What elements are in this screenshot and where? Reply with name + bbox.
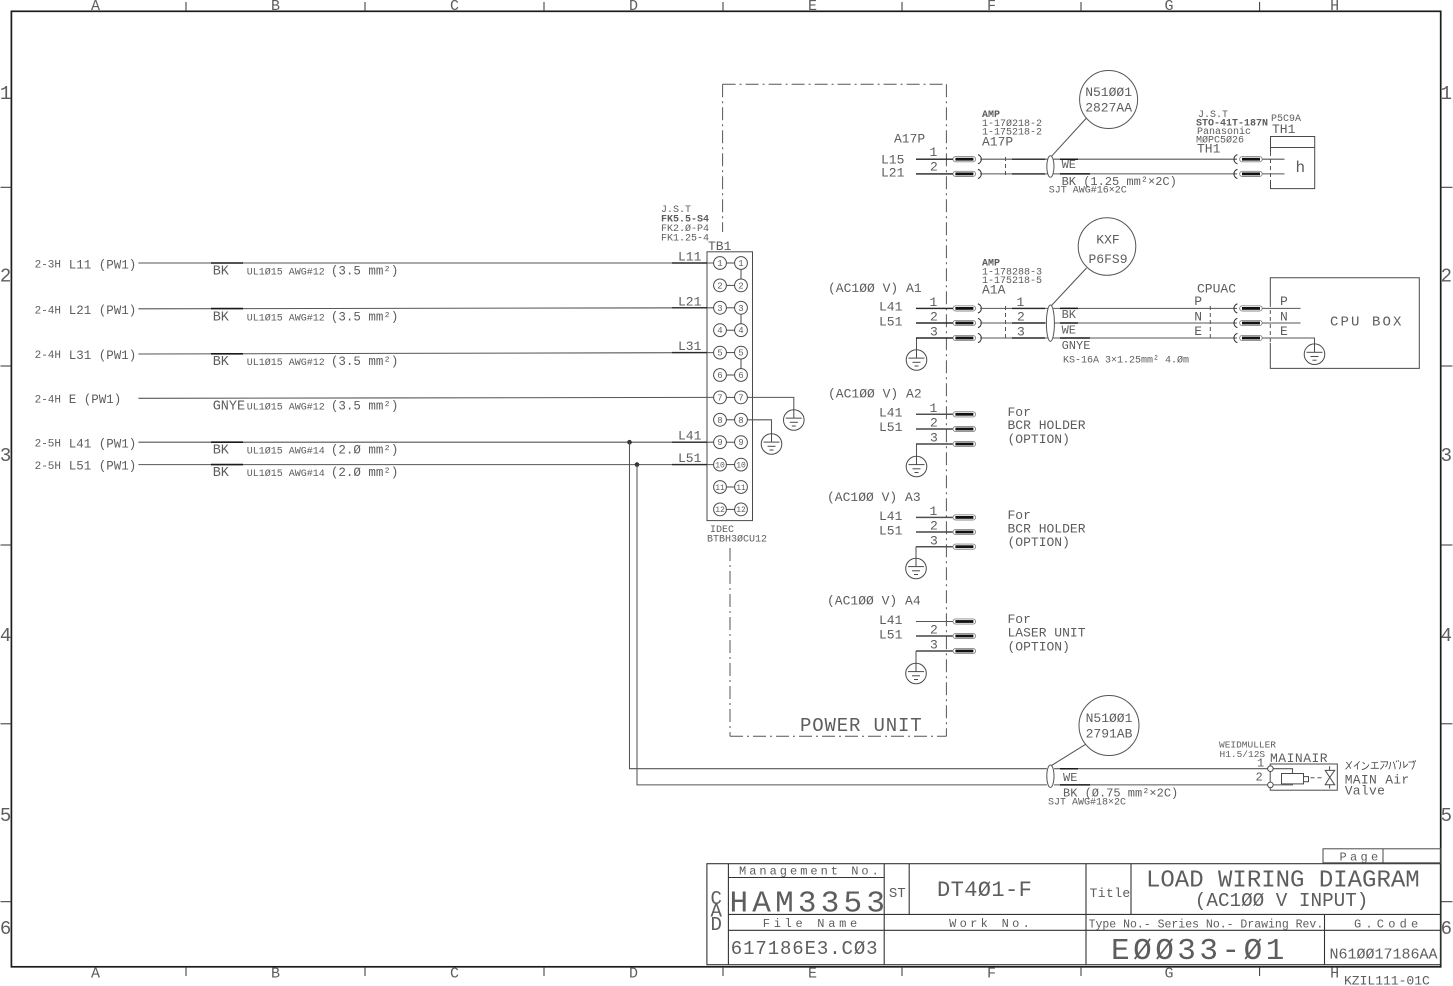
node L41 input label [35, 437, 137, 451]
svg-text:B: B [271, 966, 280, 983]
svg-text:File Name: File Name [763, 917, 861, 931]
connector pins A2 [953, 412, 976, 417]
connector pin A17P-2 [953, 169, 981, 178]
svg-text:(AC1ØØ V) A1: (AC1ØØ V) A1 [828, 281, 922, 296]
svg-text:SJT AWG#16×2C: SJT AWG#16×2C [1049, 186, 1127, 197]
svg-text:1: 1 [930, 401, 938, 416]
ground G3 (A1 pin3) [916, 338, 918, 350]
connector pins A1A [953, 304, 981, 313]
svg-text:1: 1 [930, 145, 938, 160]
wire L21 to TB1 pin3 [138, 308, 713, 309]
node L31 input label [35, 349, 137, 363]
svg-text:E: E [808, 0, 817, 15]
svg-text:Type No.- Series No.- Drawing: Type No.- Series No.- Drawing Rev. [1089, 919, 1324, 932]
frame ruler ticks top [186, 2, 1260, 11]
wire into TH1 box pin2 [1262, 173, 1284, 175]
wire into TH1 box pin1 [1262, 158, 1284, 160]
label BK conductor A1 [1060, 307, 1078, 309]
svg-text:2: 2 [738, 281, 743, 291]
svg-text:BK: BK [213, 466, 230, 481]
cable marker oval main air cable [1047, 765, 1054, 787]
wire A3 pin2 [916, 531, 953, 533]
svg-text:3: 3 [738, 304, 743, 314]
svg-text:BK: BK [1062, 308, 1077, 322]
cable boundary dashes A17P [1005, 157, 1007, 176]
terminal block TB1 connector maker labels [661, 205, 709, 245]
svg-text:F: F [987, 0, 996, 15]
svg-text:ST: ST [889, 886, 906, 902]
svg-text:UL1Ø15 AWG#14 (2.Ø mm²): UL1Ø15 AWG#14 (2.Ø mm²) [247, 466, 399, 480]
svg-text:5: 5 [0, 805, 11, 827]
wire A4 pin2 [916, 635, 953, 637]
label WE conductor main air [1060, 768, 1078, 770]
wire A1-1 to CPUAC [980, 307, 1237, 309]
svg-text:L11 (PW1): L11 (PW1) [69, 258, 137, 272]
wire A17P-2 to TH1 cable [980, 173, 1237, 175]
svg-text:L21: L21 [881, 166, 905, 181]
svg-text:617186E3.CØ3: 617186E3.CØ3 [731, 938, 879, 960]
svg-text:L41: L41 [879, 509, 903, 524]
svg-text:Title: Title [1090, 886, 1131, 901]
svg-text:3: 3 [930, 431, 938, 446]
wire L51 to TB1 pin10 [138, 464, 713, 466]
page box [1323, 849, 1441, 863]
svg-text:9: 9 [738, 438, 743, 448]
main air valve box [1270, 764, 1337, 790]
svg-text:BCR HOLDER: BCR HOLDER [1008, 418, 1086, 433]
svg-text:L51: L51 [879, 627, 903, 642]
terminal block TB1 part number [707, 525, 767, 546]
svg-text:12: 12 [715, 506, 725, 515]
svg-text:N61ØØ17186AA: N61ØØ17186AA [1330, 947, 1438, 964]
svg-text:GNYE: GNYE [1062, 339, 1091, 353]
label L51 wire spec [213, 466, 399, 481]
svg-text:N: N [1194, 309, 1202, 324]
svg-text:2: 2 [930, 519, 938, 534]
label L11 wire spec [213, 265, 399, 280]
label L41 wire spec [213, 444, 399, 459]
svg-text:C: C [450, 0, 459, 15]
svg-text:A1A: A1A [982, 283, 1006, 298]
svg-text:E: E [1194, 324, 1202, 339]
svg-text:(OPTION): (OPTION) [1008, 432, 1070, 447]
svg-text:L41: L41 [879, 613, 903, 628]
svg-text:(OPTION): (OPTION) [1008, 639, 1070, 654]
svg-text:BK: BK [213, 310, 230, 325]
svg-text:6: 6 [1441, 918, 1452, 940]
svg-text:WE: WE [1062, 158, 1076, 172]
svg-text:P: P [1194, 294, 1202, 309]
svg-text:L31: L31 [678, 339, 702, 354]
svg-text:UL1Ø15 AWG#12 (3.5 mm²): UL1Ø15 AWG#12 (3.5 mm²) [247, 265, 399, 279]
svg-text:B: B [271, 0, 280, 15]
svg-text:2: 2 [930, 160, 938, 175]
svg-text:BTBH3ØCU12: BTBH3ØCU12 [707, 534, 767, 546]
label L21 wire spec [213, 310, 399, 325]
svg-text:2: 2 [930, 416, 938, 431]
wire pin2 to valve plug [1273, 784, 1292, 785]
svg-text:E: E [808, 966, 817, 983]
svg-text:L51 (PW1): L51 (PW1) [69, 460, 137, 474]
cable marker oval TH1 cable [1047, 156, 1054, 178]
ground G6 (A3 pin3) [915, 547, 917, 559]
svg-text:2-3H: 2-3H [35, 260, 61, 272]
label L31 wire spec [213, 355, 399, 370]
svg-text:6: 6 [0, 918, 11, 940]
cable boundary dashes CPUAC [1209, 306, 1211, 340]
wire A2 pin2 [916, 428, 953, 430]
svg-text:Work No.: Work No. [949, 917, 1033, 931]
svg-text:E: E [1280, 324, 1288, 339]
svg-text:A: A [91, 0, 100, 15]
svg-text:G: G [1164, 0, 1173, 15]
svg-text:L11: L11 [678, 250, 702, 265]
wire WE to main air pin1 [1054, 768, 1268, 770]
svg-text:P: P [1280, 294, 1288, 309]
wire A17P-1 to TH1 cable [980, 158, 1237, 160]
wire L31 to TB1 pin5 [138, 353, 713, 354]
junction dot L41 [627, 440, 632, 445]
svg-text:D: D [629, 0, 638, 15]
thermostat TH1 maker labels [1196, 110, 1268, 147]
terminal maker label WEIDMULLER [1219, 740, 1276, 761]
svg-text:7: 7 [738, 393, 743, 403]
svg-text:2: 2 [930, 310, 938, 325]
wire A1-3 to CPUAC [980, 337, 1237, 339]
svg-text:DT4Ø1-F: DT4Ø1-F [937, 878, 1032, 903]
svg-text:P6FS9: P6FS9 [1088, 252, 1127, 267]
svg-text:L51: L51 [678, 451, 702, 466]
wire CPUAC P into box [1262, 307, 1300, 309]
terminal block TB1 pin numbers [717, 259, 743, 448]
svg-text:4: 4 [738, 326, 743, 336]
label main air valve japanese [1346, 760, 1416, 769]
svg-text:11: 11 [715, 484, 725, 493]
svg-text:N51ØØ1: N51ØØ1 [1086, 711, 1133, 726]
svg-text:A: A [91, 966, 100, 983]
svg-text:9: 9 [717, 438, 722, 448]
svg-text:1: 1 [1257, 757, 1264, 771]
svg-text:2: 2 [930, 623, 938, 638]
wire A1 pin2 [916, 322, 953, 324]
terminal block TB1 jumpers rows 1-2,3-4,5-6 [740, 269, 742, 368]
wire A2 pin1 [916, 413, 953, 415]
svg-text:2: 2 [1017, 310, 1025, 325]
label For BCR HOLDER (OPTION) A2 [1008, 405, 1086, 447]
svg-text:3: 3 [0, 445, 11, 467]
balloon N51001 2827AA [1052, 71, 1138, 157]
wire L41 to TB1 pin9 [138, 441, 713, 443]
svg-text:6: 6 [717, 371, 722, 381]
solenoid valve symbol [1325, 766, 1335, 788]
svg-text:Page: Page [1340, 850, 1382, 864]
svg-text:N: N [1280, 309, 1288, 324]
wire L11 to TB1 pin1 [138, 262, 713, 264]
svg-text:(AC1ØØ V INPUT): (AC1ØØ V INPUT) [1195, 890, 1369, 912]
svg-text:WE: WE [1063, 771, 1077, 785]
connector sockets CPUAC [1234, 304, 1262, 313]
svg-text:A17P: A17P [894, 132, 925, 147]
wire A4 pin3 from ground [916, 650, 953, 652]
connector pins A3 [953, 515, 976, 520]
cable boundary dashes A1 [1005, 306, 1007, 340]
wire pin1 to valve plug [1273, 769, 1292, 774]
frame ruler ticks left [1, 187, 12, 901]
svg-text:BK: BK [213, 355, 230, 370]
connector pins A4 [953, 619, 976, 624]
label E wire spec [213, 399, 399, 414]
svg-text:7: 7 [717, 393, 722, 403]
svg-text:D: D [629, 966, 638, 983]
wire L41 drop to main air cable [630, 442, 1047, 769]
svg-text:2: 2 [1441, 266, 1452, 288]
frame column letters top [91, 0, 1339, 15]
svg-text:3: 3 [1017, 325, 1025, 340]
frame ruler ticks bottom [186, 967, 1260, 976]
wire A1 pin3 from ground [917, 337, 954, 339]
svg-text:KZIL111-01C: KZIL111-01C [1344, 974, 1430, 986]
connector A17P plug maker label [982, 110, 1042, 139]
svg-text:1: 1 [738, 259, 743, 269]
svg-text:H: H [1330, 0, 1339, 15]
terminal circle pin2 [1268, 782, 1274, 788]
wire A1 pin1 [916, 307, 953, 309]
svg-text:F: F [987, 966, 996, 983]
svg-text:BK: BK [213, 444, 230, 459]
terminal block TB1 body [707, 252, 753, 521]
svg-text:2: 2 [717, 281, 722, 291]
svg-text:G.Code: G.Code [1354, 918, 1422, 932]
svg-text:POWER UNIT: POWER UNIT [800, 715, 923, 737]
cable marker oval A1 cable [1046, 305, 1054, 341]
terminal block TB1 terminals [714, 257, 748, 516]
svg-text:8: 8 [738, 416, 743, 426]
svg-text:L41 (PW1): L41 (PW1) [69, 437, 137, 451]
svg-text:2791AB: 2791AB [1086, 727, 1133, 742]
svg-text:L51: L51 [879, 523, 903, 538]
ground G5 (A2 pin3) [916, 444, 918, 456]
svg-text:L51: L51 [879, 315, 903, 330]
wire E to TB1 pin7 [138, 396, 713, 399]
node L11 input label [35, 258, 137, 272]
wire A3 pin3 from ground [916, 546, 953, 548]
svg-text:Valve: Valve [1345, 784, 1386, 799]
label For BCR HOLDER (OPTION) A3 [1008, 508, 1086, 550]
svg-text:2-4H: 2-4H [35, 350, 61, 362]
svg-text:UL1Ø15 AWG#12 (3.5 mm²): UL1Ø15 AWG#12 (3.5 mm²) [247, 310, 399, 324]
label For LASER UNIT (OPTION) A4 [1008, 612, 1086, 654]
svg-text:(OPTION): (OPTION) [1008, 535, 1070, 550]
svg-text:BK: BK [213, 265, 230, 280]
wire TB1 pin8 to ground [747, 420, 771, 434]
frame column letters bottom [91, 966, 1339, 983]
svg-text:D: D [711, 914, 722, 936]
svg-text:EØØ33-Ø1: EØØ33-Ø1 [1111, 934, 1288, 969]
wire A4 pin1 [916, 621, 953, 623]
svg-text:11: 11 [736, 484, 746, 493]
svg-text:TH1: TH1 [1272, 122, 1296, 137]
wire CPUAC E to box ground [1262, 338, 1314, 344]
svg-text:5: 5 [738, 349, 743, 359]
frame row numbers right [1441, 83, 1452, 940]
svg-text:L41: L41 [678, 429, 702, 444]
svg-text:UL1Ø15 AWG#12 (3.5 mm²): UL1Ø15 AWG#12 (3.5 mm²) [247, 355, 399, 369]
ground G7 (A4 pin3) [915, 651, 917, 663]
frame ruler ticks right [1441, 187, 1453, 901]
svg-text:A17P: A17P [982, 135, 1013, 150]
wire L21 to A17P pin2 [916, 173, 953, 175]
wire A1-2 to CPUAC [980, 322, 1237, 324]
balloon N51001 2791AB [1052, 696, 1140, 766]
svg-text:L21 (PW1): L21 (PW1) [69, 304, 137, 318]
svg-text:1: 1 [930, 504, 938, 519]
svg-text:L41: L41 [879, 300, 903, 315]
wire BK to main air pin2 [1054, 784, 1268, 786]
svg-text:2827AA: 2827AA [1085, 101, 1132, 116]
ground G1 (TB1 pin7) [784, 410, 805, 431]
svg-text:L21: L21 [678, 294, 702, 309]
svg-text:3: 3 [1441, 445, 1452, 467]
svg-text:L31 (PW1): L31 (PW1) [69, 349, 137, 363]
wire L51 drop to main air cable [637, 465, 1047, 785]
svg-text:WE: WE [1062, 324, 1076, 338]
svg-text:E (PW1): E (PW1) [69, 393, 122, 407]
svg-text:UL1Ø15 AWG#14 (2.Ø mm²): UL1Ø15 AWG#14 (2.Ø mm²) [247, 444, 399, 458]
label CAD [711, 888, 723, 936]
svg-text:Management No.: Management No. [739, 865, 882, 879]
frame row numbers left [0, 83, 11, 940]
svg-text:2: 2 [1256, 771, 1263, 785]
title block outer [707, 864, 1441, 965]
svg-text:5: 5 [717, 349, 722, 359]
svg-text:3: 3 [930, 638, 938, 653]
connector A1A maker label [982, 259, 1042, 288]
svg-text:KS-16A 3×1.25mm² 4.Øm: KS-16A 3×1.25mm² 4.Øm [1063, 355, 1189, 367]
svg-text:C: C [450, 966, 459, 983]
svg-text:6: 6 [738, 371, 743, 381]
valve plug symbol [1282, 774, 1324, 784]
svg-text:KXF: KXF [1096, 233, 1119, 248]
svg-text:1: 1 [1441, 83, 1452, 105]
svg-text:SJT AWG#18×2C: SJT AWG#18×2C [1048, 798, 1126, 809]
node L21 input label [35, 304, 137, 318]
wire CPUAC N into box [1262, 322, 1300, 324]
POWER UNIT boundary (dash-dot box) [723, 84, 947, 736]
svg-text:TH1: TH1 [1197, 142, 1221, 157]
CPU BOX enclosure [1270, 278, 1419, 369]
svg-text:CPU BOX: CPU BOX [1330, 315, 1404, 331]
svg-text:L51: L51 [879, 420, 903, 435]
svg-text:(AC1ØØ V) A3: (AC1ØØ V) A3 [827, 490, 921, 505]
svg-text:GNYE: GNYE [213, 399, 245, 414]
svg-text:12: 12 [736, 506, 746, 515]
junction dot L51 [635, 462, 640, 467]
label WE conductor [1060, 158, 1078, 160]
ground G4 (CPU BOX) [1304, 344, 1325, 365]
pin label underline segments [672, 159, 1045, 651]
wire A3 pin1 [916, 516, 953, 518]
svg-text:5: 5 [1441, 805, 1452, 827]
svg-text:FK1.25-4: FK1.25-4 [661, 234, 709, 245]
svg-text:h: h [1296, 159, 1306, 177]
svg-text:2-4H: 2-4H [35, 394, 61, 406]
wire L1S to A17P pin1 [916, 158, 953, 160]
ground G2 (TB1 pin8) [761, 434, 782, 455]
svg-text:4: 4 [717, 326, 722, 336]
svg-text:H: H [1330, 966, 1339, 983]
svg-text:N51ØØ1: N51ØØ1 [1085, 85, 1132, 100]
svg-text:1: 1 [717, 259, 722, 269]
svg-text:4: 4 [1441, 625, 1452, 647]
svg-text:8: 8 [717, 416, 722, 426]
svg-text:L41: L41 [879, 406, 903, 421]
terminal circle pin1 [1268, 766, 1274, 772]
svg-text:1: 1 [0, 83, 11, 105]
svg-text:2: 2 [0, 266, 11, 288]
svg-text:(AC1ØØ V) A4: (AC1ØØ V) A4 [827, 594, 921, 609]
svg-text:UL1Ø15 AWG#12 (3.5 mm²): UL1Ø15 AWG#12 (3.5 mm²) [247, 399, 399, 413]
svg-text:3: 3 [930, 533, 938, 548]
svg-text:4: 4 [0, 625, 11, 647]
svg-text:10: 10 [736, 461, 746, 470]
svg-text:2-5H: 2-5H [35, 439, 61, 451]
svg-text:3: 3 [930, 325, 938, 340]
thermostat TH1 box [1271, 137, 1315, 189]
wire TB1 pin7 to ground [747, 397, 793, 409]
connector pin A17P-1 [953, 155, 981, 164]
svg-text:2-4H: 2-4H [35, 305, 61, 317]
svg-text:LASER UNIT: LASER UNIT [1008, 625, 1086, 640]
svg-text:(AC1ØØ V) A2: (AC1ØØ V) A2 [828, 387, 922, 402]
svg-text:3: 3 [717, 304, 722, 314]
connector socket TH1-2 [1234, 169, 1262, 178]
svg-text:10: 10 [715, 461, 725, 470]
svg-text:2-5H: 2-5H [35, 461, 61, 473]
balloon KXF P6FS9 [1052, 218, 1136, 306]
svg-text:CPUAC: CPUAC [1197, 282, 1236, 297]
node E input label [35, 393, 122, 407]
connector socket TH1-1 [1234, 155, 1262, 164]
node L51 input label [35, 460, 137, 474]
wire A2 pin3 from ground [917, 443, 954, 445]
